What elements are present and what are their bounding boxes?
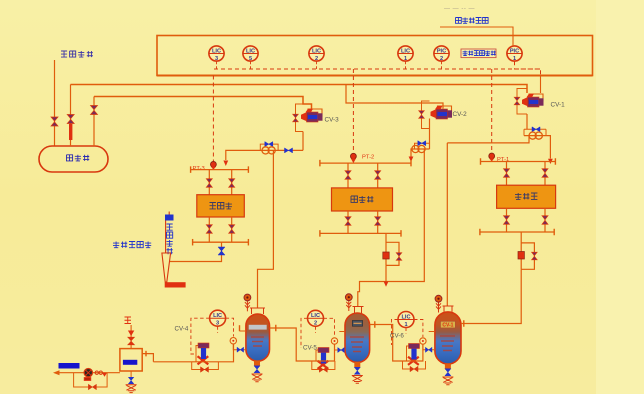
main steam pressure controller box: [461, 49, 496, 58]
meter bypass loop CV-2: [415, 143, 430, 149]
svg-text:CV-1: CV-1: [442, 323, 453, 329]
outlet valves HT exchanger: [504, 216, 510, 225]
control valve CV-4: [196, 346, 198, 362]
wire: boiler steam down to drum: [54, 60, 56, 146]
outlet valves MT exchanger: [345, 217, 351, 226]
svg-text:— — -- —: — — -- —: [444, 6, 475, 12]
svg-text:PT-2: PT-2: [362, 155, 374, 161]
T1 level tap pot: [230, 338, 236, 344]
wire: line through CV-6: [404, 344, 423, 361]
HP steam header: [481, 161, 556, 163]
svg-text:CV-5: CV-5: [303, 345, 317, 352]
svg-text:LIC: LIC: [401, 314, 410, 320]
wire: T1 outlet right: [270, 328, 312, 361]
tank T2 vessel: [345, 313, 370, 362]
wire: line through CV-5: [311, 344, 335, 361]
wire: HT condensate to tank3: [466, 269, 521, 323]
T2 bottom nozzle: [354, 362, 360, 368]
valve (blue) tap line: [338, 348, 345, 353]
wire: steam line B to CV-3: [94, 97, 312, 111]
T1 name band: [249, 325, 267, 330]
svg-text:2: 2: [315, 56, 318, 62]
condensate valve (blue): [218, 247, 225, 255]
T3 name plate: [441, 321, 456, 328]
condensate collection tank: [120, 349, 142, 371]
wire: tap to tank: [335, 332, 346, 351]
valve (blue) on ejector line: [165, 215, 174, 221]
wire: header drops to HT exchanger: [507, 162, 546, 186]
level gauge (blue bar) in tank: [123, 360, 137, 365]
signal wire (dashed) to PT-3: [212, 76, 214, 163]
makeup valve (x): [128, 337, 135, 345]
makeup arrow: [128, 331, 134, 337]
wire: T2 outlet right: [370, 325, 404, 362]
CV-4 bypass valve: [201, 367, 209, 373]
wire: CV-1 outlet chain: [524, 114, 550, 159]
tank T3 vessel: [435, 312, 461, 364]
T1 inner text marks: [251, 337, 264, 346]
instrument LIC-2: [316, 61, 318, 69]
instrument LIC-5: [250, 61, 252, 69]
wire: CV-2 outlet chain: [411, 119, 430, 159]
wire: feedwater line through CV-4: [153, 344, 233, 362]
wire: branch of line A to CV-2: [346, 85, 443, 109]
T3 relief valve: [438, 300, 440, 313]
T3 top flange: [443, 306, 454, 312]
HT condensate trap bypass loop: [521, 232, 534, 269]
instrument LIC-3: [216, 61, 218, 69]
controller panel bar: [157, 36, 593, 76]
dashed signal LIC-1 to CV-6: [392, 320, 407, 346]
wire: steam line A: [71, 85, 528, 94]
label: 水力喷射器 (horizontal): [113, 242, 151, 248]
inlet valves MT exchanger: [345, 171, 351, 180]
bypass shutoff valve (blue) CV-3: [265, 142, 273, 147]
steam trap (red) MT: [383, 252, 389, 259]
svg-text:1: 1: [404, 56, 407, 62]
T2 level tap pot: [331, 338, 337, 344]
pressure tap PT-2: [351, 153, 357, 159]
instrument LIC-1: [405, 61, 407, 69]
CV-4 bypass loop: [192, 362, 219, 370]
water seal (red bar): [165, 282, 186, 287]
T1 relief valve: [246, 298, 248, 311]
svg-text:LIC: LIC: [213, 313, 222, 319]
svg-text:LIC: LIC: [312, 48, 321, 54]
svg-text:2: 2: [314, 321, 317, 327]
bypass shutoff valve (blue) CV-1: [532, 127, 540, 132]
T3 inner text marks: [440, 336, 455, 351]
pump discharge flanges: [95, 371, 98, 374]
T2 drain: [352, 376, 363, 384]
label: ejector (vertical chars): [167, 224, 173, 254]
ejector funnel: [162, 253, 171, 282]
valve V3 on drum second outlet: [91, 106, 98, 115]
flow meter (figure-8) CV-1 chain: [529, 132, 536, 139]
flow meter (figure-8) CV-2 chain: [412, 145, 419, 152]
pump motor block: [84, 377, 91, 381]
wire: condensate to ejector: [169, 242, 222, 261]
pump bypass loop: [74, 373, 108, 387]
signal wire (dashed) to PT-1: [491, 69, 493, 153]
heat exchanger: low temp section (低温段): [197, 195, 245, 217]
legend bar (blue): [59, 363, 80, 369]
wire: makeup water line down: [130, 325, 132, 349]
wire: tap to tank: [233, 331, 246, 350]
wire: T3 right nozzle: [461, 323, 466, 325]
bypass shutoff valve (blue) CV-2: [418, 141, 426, 146]
wire: header drops to MT exchanger: [348, 163, 378, 188]
signal bus (dashed) inside bar: [214, 68, 540, 70]
T3 drain valve (blue): [445, 369, 451, 376]
T2 relief valve: [348, 298, 350, 311]
MT condensate trap bypass loop: [386, 233, 399, 265]
wire: ejector motive line: [166, 212, 170, 254]
wire: CV-3 outlet chain: [226, 132, 303, 161]
MP condensate header: [320, 232, 401, 234]
svg-text:CV-1: CV-1: [551, 102, 566, 109]
outlet valves LT exchanger: [206, 225, 212, 234]
wire: signal input line into PIC-1: [440, 27, 513, 46]
svg-text:CV-6: CV-6: [390, 333, 404, 340]
control valve CV-1: [529, 94, 543, 103]
heat exchanger: mid temp section (中温段): [332, 188, 393, 211]
bypass loop of CV-3: [296, 104, 304, 132]
svg-text:1: 1: [404, 322, 407, 328]
svg-text:CV-4: CV-4: [175, 326, 189, 333]
control valve V2 on drum outlet: [69, 124, 72, 140]
svg-text:PIC: PIC: [437, 48, 446, 54]
svg-text:LIC: LIC: [246, 48, 255, 54]
dashed signal LIC-3 to CV-4: [191, 318, 218, 354]
wire: drum to steam line A: [70, 85, 72, 147]
bypass valve at CV-1: [514, 97, 520, 105]
LP steam header: [191, 169, 249, 171]
wire: tank3 feed from CV-1 chain: [447, 136, 529, 306]
LP condensate header: [193, 241, 249, 243]
svg-text:LIC: LIC: [311, 313, 320, 319]
steam trap (red) HT: [518, 252, 524, 260]
CV-6 bypass loop: [403, 361, 426, 369]
T1 bottom nozzle: [254, 361, 260, 367]
svg-text:3: 3: [215, 56, 218, 62]
label: boiler steam inlet (锅炉来汽): [61, 51, 93, 57]
trap bypass valve MT: [396, 253, 402, 261]
red chevron on suction line: [102, 373, 107, 377]
T2 inner text marks: [350, 337, 364, 352]
block valve (blue) CV-3 chain: [285, 148, 293, 153]
control valve CV-6: [407, 346, 409, 361]
CV-5 bypass loop: [312, 361, 335, 370]
control valve CV-2: [438, 106, 452, 115]
tank drain symbol: [126, 385, 137, 393]
wire: HT exchanger outlet drops: [507, 208, 546, 232]
level controller LIC-2 (field): [308, 310, 324, 326]
pump bypass valve: [88, 384, 96, 390]
HP condensate header: [480, 231, 554, 233]
T2 drain valve (blue): [354, 367, 360, 374]
svg-text:CV-3: CV-3: [325, 117, 340, 124]
wire: MT exchanger outlet drops: [348, 211, 378, 233]
MP steam header: [320, 162, 411, 164]
instrument PIC-1: [507, 46, 522, 61]
flow meter (figure-8) CV-3 chain: [262, 147, 269, 154]
svg-text:CV-2: CV-2: [453, 111, 468, 118]
meter bypass loop CV-3: [260, 144, 278, 150]
valve V1 on boiler steam line: [51, 117, 58, 126]
T2 name plate (dark): [352, 321, 362, 327]
bypass valve at CV-3: [293, 114, 299, 122]
heat exchanger: high temp section (高温段): [497, 185, 556, 208]
svg-text:2: 2: [440, 56, 443, 62]
wire: tank1 feed from CV-3 chain: [258, 150, 274, 308]
bypass loop of CV-2: [422, 101, 430, 129]
bypass valve at CV-2: [419, 111, 425, 119]
tank bottom drain: [130, 371, 132, 378]
tank T1 vessel: [246, 314, 270, 361]
T1 top flange: [250, 308, 265, 314]
T3 drain: [442, 377, 453, 385]
svg-text:LIC: LIC: [212, 48, 221, 54]
trap bypass valve HT: [532, 252, 538, 260]
inlet valves HT exchanger: [504, 169, 510, 178]
wire: header drops to LT exchanger: [209, 170, 231, 195]
valve (blue) tap line: [237, 347, 244, 352]
svg-text:1: 1: [513, 56, 516, 62]
svg-text:PIC: PIC: [510, 48, 519, 54]
pressure tap PT-3: [211, 162, 217, 168]
inlet valves LT exchanger: [206, 179, 212, 188]
wire: MT condensate into tank2 feed: [385, 265, 387, 281]
dashed link LIC-1 to tank tap: [414, 320, 423, 338]
pressure tap PT-1: [489, 153, 495, 159]
control valve CV-3: [308, 109, 322, 118]
dashed signal LIC-2 to CV-5: [301, 318, 316, 348]
control valve CV-5: [316, 350, 318, 361]
signal wire PIC-1 to CV-1: [515, 61, 541, 75]
T1 drain valve (blue): [254, 366, 260, 373]
CV-6 bypass valve: [410, 366, 418, 372]
arrow into LP header: [223, 161, 228, 167]
T3 level tap pot: [420, 338, 426, 344]
T3 bottom nozzle: [445, 364, 451, 370]
arrow into HP header: [548, 159, 553, 164]
instrument PIC-2: [441, 61, 443, 69]
steam drum vessel (生蒸汽): [39, 146, 108, 172]
dashed link LIC-3 to tank tap: [226, 318, 234, 336]
level controller LIC-3 (field): [210, 310, 226, 326]
wire: tap to tank: [423, 332, 435, 350]
meter bypass loop CV-1: [524, 129, 546, 135]
dashed link LIC-2 to tank tap: [324, 318, 335, 337]
svg-text:5: 5: [249, 56, 252, 62]
bypass loop of CV-1: [517, 89, 527, 115]
label: signal input (blue): [456, 18, 489, 24]
arrow into MP header: [409, 157, 414, 162]
svg-text:LIC: LIC: [401, 48, 410, 54]
valve (blue) tap line: [425, 347, 432, 352]
makeup water label 水: [125, 317, 132, 324]
T2 top flange: [353, 307, 364, 314]
feedwater suction line with arrow: [56, 372, 120, 374]
CV-5 bypass valve: [319, 367, 327, 373]
wire: LT exchanger outlet drops: [209, 217, 231, 242]
wire: drum to steam line B: [93, 97, 95, 147]
wire: tank2 feed from CV-2 chain: [358, 149, 425, 307]
T1 drain: [252, 374, 263, 382]
svg-text:3: 3: [216, 321, 219, 327]
feed pump P1: [84, 369, 92, 377]
wire: tank to CV-4 feed: [142, 354, 153, 362]
level controller LIC-1 (field): [398, 312, 414, 328]
label: 生蒸汽: [67, 155, 90, 161]
signal wire (dashed) to PT-2: [352, 69, 354, 153]
